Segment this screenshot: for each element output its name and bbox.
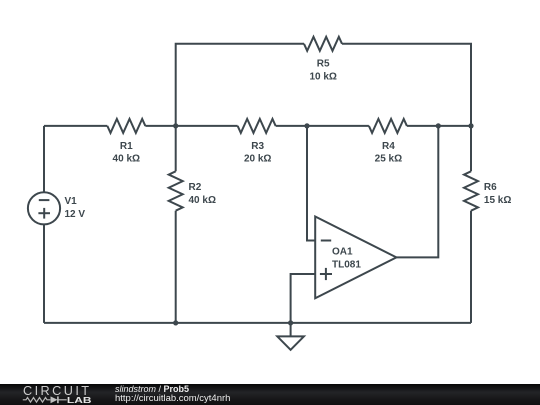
resistor R2 — [169, 171, 183, 210]
node junction R2 bottom — [173, 320, 178, 325]
resistor R1 — [107, 119, 145, 133]
voltage source V1 — [28, 192, 60, 224]
wire R6 top lead — [470, 126, 472, 171]
node junction R3/R4/op-amp minus — [304, 123, 309, 128]
resistor R6 — [464, 171, 478, 210]
footer bar — [0, 384, 540, 405]
wire top right corner — [342, 44, 471, 126]
ground symbol — [277, 336, 304, 349]
wire R3 to R4 — [276, 125, 369, 127]
resistor R3 — [238, 119, 276, 133]
ground stem — [290, 323, 292, 337]
svg-text:R5: R5 — [317, 59, 330, 70]
svg-text:R1: R1 — [120, 141, 133, 152]
svg-text:12 V: 12 V — [65, 209, 86, 220]
wire R2 bottom lead — [175, 211, 177, 323]
node junction R1/R2/R3/top — [173, 123, 178, 128]
svg-text:TL081: TL081 — [332, 260, 361, 271]
svg-text:V1: V1 — [65, 196, 78, 207]
logo resistor zigzag — [23, 398, 51, 403]
svg-text:http://circuitlab.com/cyt4nrh: http://circuitlab.com/cyt4nrh — [115, 393, 230, 403]
svg-text:R3: R3 — [251, 141, 264, 152]
node junction R4/feedback — [436, 123, 441, 128]
wire left vertical below V1 — [43, 224, 45, 323]
wire R6 bottom lead — [470, 211, 472, 323]
wire non-inverting input feed — [291, 274, 316, 323]
wire R1 to R3 — [145, 125, 237, 127]
wire main left segment — [44, 125, 107, 127]
svg-text:25 kΩ: 25 kΩ — [375, 154, 402, 165]
svg-text:R2: R2 — [189, 182, 202, 193]
wire R4 to right — [407, 125, 471, 127]
op-amp OA1 — [315, 217, 396, 299]
wire top horizontal — [176, 44, 304, 126]
svg-text:R4: R4 — [382, 141, 395, 152]
wire left vertical above V1 — [43, 126, 45, 192]
wire bottom horizontal — [44, 322, 471, 324]
logo diode symbol — [51, 396, 58, 403]
wire inverting input feed — [307, 126, 315, 241]
svg-text:40 kΩ: 40 kΩ — [189, 195, 216, 206]
svg-text:20 kΩ: 20 kΩ — [244, 154, 271, 165]
node junction right corner/R6 — [468, 123, 473, 128]
svg-text:40 kΩ: 40 kΩ — [113, 154, 140, 165]
wire R2 top lead — [175, 126, 177, 171]
V1 plus sign — [38, 212, 50, 214]
V1 minus sign — [39, 199, 50, 201]
svg-text:R6: R6 — [484, 182, 497, 193]
op-amp plus pin mark — [320, 273, 332, 275]
resistor R4 — [369, 119, 407, 133]
wire op-amp output feedback — [396, 126, 438, 258]
op-amp minus pin mark — [321, 240, 331, 242]
svg-text:10 kΩ: 10 kΩ — [309, 72, 336, 83]
svg-text:15 kΩ: 15 kΩ — [484, 195, 511, 206]
svg-text:LAB: LAB — [67, 395, 92, 405]
resistor R5 — [304, 37, 342, 51]
node junction ground — [288, 320, 293, 325]
svg-text:OA1: OA1 — [332, 247, 353, 258]
